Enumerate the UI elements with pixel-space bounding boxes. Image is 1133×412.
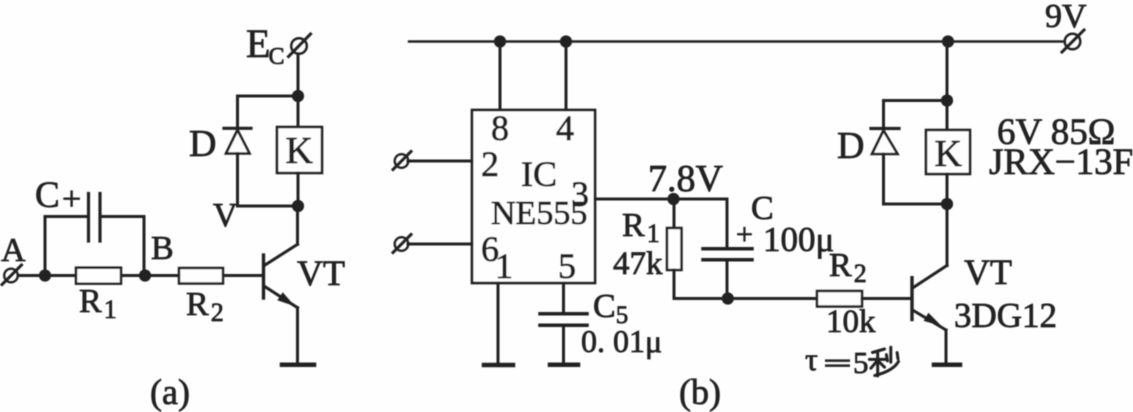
svg-text:VT: VT bbox=[297, 253, 345, 293]
svg-text:5: 5 bbox=[558, 246, 576, 286]
svg-text:(b): (b) bbox=[679, 372, 721, 412]
svg-text:B: B bbox=[151, 230, 174, 267]
svg-text:K: K bbox=[286, 130, 314, 172]
svg-text:C: C bbox=[35, 175, 60, 216]
svg-text:+: + bbox=[62, 181, 81, 218]
svg-text:K: K bbox=[935, 133, 963, 175]
svg-text:1: 1 bbox=[495, 246, 513, 286]
svg-text:10k: 10k bbox=[826, 304, 876, 340]
svg-text:4: 4 bbox=[556, 108, 574, 148]
svg-text:JRX−13F: JRX−13F bbox=[989, 142, 1133, 183]
svg-text:+: + bbox=[736, 218, 753, 251]
svg-text:(a): (a) bbox=[150, 372, 190, 412]
svg-text:5: 5 bbox=[853, 345, 869, 380]
svg-text:47k: 47k bbox=[613, 246, 663, 282]
svg-text:NE555: NE555 bbox=[491, 195, 587, 232]
svg-text:8: 8 bbox=[491, 108, 509, 148]
svg-text:100μ: 100μ bbox=[763, 220, 834, 259]
svg-text:τ: τ bbox=[805, 341, 818, 377]
svg-text:V: V bbox=[213, 197, 238, 234]
svg-text:D: D bbox=[837, 125, 864, 167]
svg-text:0. 01μ: 0. 01μ bbox=[581, 323, 662, 359]
svg-text:9V: 9V bbox=[1045, 0, 1087, 35]
svg-text:A: A bbox=[1, 232, 26, 269]
svg-text:7.8V: 7.8V bbox=[648, 158, 724, 200]
svg-text:3DG12: 3DG12 bbox=[954, 296, 1057, 335]
svg-text:D: D bbox=[189, 123, 216, 165]
svg-text:IC: IC bbox=[521, 154, 557, 194]
svg-text:2: 2 bbox=[481, 144, 499, 184]
svg-text:VT: VT bbox=[964, 252, 1012, 292]
